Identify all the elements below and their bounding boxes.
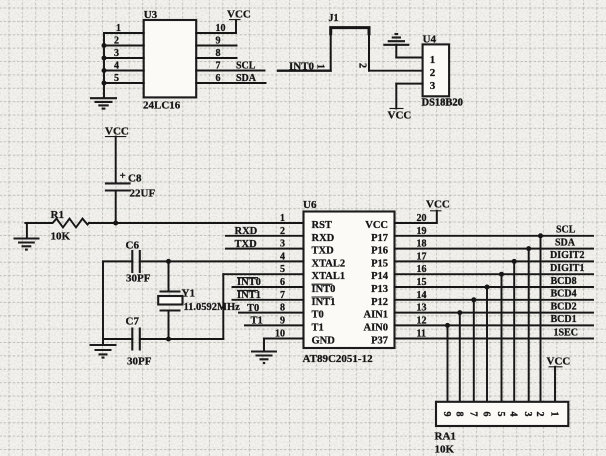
U6 pin 14 wire, net BCD4 (395, 289, 594, 300)
U6 left pin numbers 1-10 (275, 213, 285, 340)
svg-text:INT0: INT0 (312, 284, 336, 295)
resistor array RA1 10K (435, 402, 569, 456)
svg-text:T0: T0 (247, 303, 259, 314)
wire RXD to U6 pin 2 (226, 226, 304, 237)
svg-text:1: 1 (549, 412, 560, 417)
junction XTAL2 / Y1 (166, 259, 171, 264)
svg-text:6: 6 (481, 412, 492, 417)
svg-text:DIGIT2: DIGIT2 (550, 250, 584, 261)
crystal Y1 11.0592MHz (158, 261, 240, 339)
U6 pin 19 wire, net SCL (395, 225, 594, 236)
wire T1 to U6 pin 9 (245, 316, 304, 327)
svg-text:10K: 10K (435, 444, 455, 456)
svg-text:XTAL1: XTAL1 (312, 271, 346, 282)
wire: U3 input bus (103, 33, 105, 98)
svg-text:P15: P15 (371, 258, 388, 269)
svg-text:8: 8 (453, 412, 464, 417)
svg-text:2: 2 (430, 67, 436, 79)
svg-text:9: 9 (441, 412, 452, 417)
wire INT0 to J1 pin 1 (278, 69, 331, 71)
U4 DS18B20 body (422, 34, 463, 109)
svg-text:DIGIT1: DIGIT1 (550, 263, 584, 274)
ground under U3 bus (90, 98, 117, 108)
svg-text:RXD: RXD (235, 226, 258, 237)
svg-text:C6: C6 (126, 240, 140, 252)
U3 pin 8 wire (196, 48, 236, 59)
wire T0 to U6 pin 8 (239, 303, 304, 314)
svg-text:22UF: 22UF (130, 188, 156, 200)
svg-text:RA1: RA1 (435, 431, 456, 443)
svg-text:3: 3 (114, 48, 119, 59)
U3 pin 6 wire, net SDA (196, 73, 265, 84)
svg-text:AT89C2051-12: AT89C2051-12 (303, 353, 374, 365)
svg-text:P13: P13 (371, 284, 388, 295)
svg-text:RXD: RXD (312, 233, 335, 244)
svg-text:U4: U4 (423, 34, 437, 46)
VCC at U6 pin 20 (426, 199, 450, 224)
svg-text:24LC16: 24LC16 (143, 100, 181, 112)
svg-text:INT1: INT1 (237, 290, 261, 301)
junction DIGIT1 / RA1 pin 5 drop (499, 272, 504, 402)
VCC at U3 pin 10 (227, 9, 251, 34)
svg-text:T1: T1 (251, 316, 263, 327)
svg-text:8: 8 (216, 48, 221, 59)
svg-text:VCC: VCC (388, 110, 412, 122)
svg-text:11.0592MHz: 11.0592MHz (184, 302, 241, 313)
svg-text:U6: U6 (303, 199, 317, 211)
svg-text:+: + (120, 170, 126, 182)
jumper J1 (315, 13, 370, 71)
junction C8 / RST wire (113, 221, 118, 226)
svg-text:SCL: SCL (556, 225, 576, 236)
U6 pin 13 wire, net BCD2 (395, 301, 594, 312)
wire RST net to U6 pin 1 (89, 222, 304, 224)
svg-text:AIN1: AIN1 (363, 310, 388, 321)
svg-text:9: 9 (216, 36, 221, 47)
svg-text:DS18B20: DS18B20 (422, 98, 463, 109)
svg-text:SDA: SDA (555, 237, 576, 248)
capacitor C6 30PF (126, 240, 151, 285)
wire XTAL1 to U6 pin 5 (223, 273, 303, 275)
svg-text:VCC: VCC (426, 199, 450, 211)
junction on bus pin2 (102, 43, 107, 48)
svg-text:2: 2 (534, 412, 545, 417)
svg-text:Y1: Y1 (182, 288, 195, 300)
U6 pin 20 wire (395, 222, 437, 224)
wire TXD to U6 pin 3 (226, 239, 304, 250)
svg-text:4: 4 (114, 61, 119, 72)
svg-text:1: 1 (430, 54, 436, 66)
svg-text:TXD: TXD (235, 239, 258, 250)
junction on bus pin3 (102, 56, 107, 61)
svg-text:INT1: INT1 (312, 297, 336, 308)
bottom wire C7 left segment (103, 338, 132, 340)
wire XTAL2 to U6 pin 4 (140, 260, 304, 262)
U3 EEPROM body (143, 9, 196, 112)
U6 right internal pin names (363, 220, 388, 347)
VCC above C8 (105, 126, 129, 184)
U6 pin 12 wire, net BCD1 (395, 314, 594, 325)
U3 pin 9 wire (196, 36, 236, 47)
inverted ground above U4 pin 1 (383, 34, 409, 58)
svg-text:P12: P12 (371, 297, 388, 308)
net label INT0 (top) (289, 60, 315, 72)
RA1 pin numbers (441, 412, 560, 417)
junction on bus pin5 (102, 81, 107, 86)
svg-text:P14: P14 (371, 271, 389, 282)
svg-text:4: 4 (508, 412, 519, 417)
ground under crystal caps (90, 345, 117, 358)
svg-text:C7: C7 (126, 316, 140, 328)
svg-text:30PF: 30PF (127, 356, 152, 368)
svg-text:10: 10 (216, 23, 226, 34)
svg-text:U3: U3 (144, 9, 158, 21)
svg-text:BCD8: BCD8 (551, 276, 577, 287)
svg-text:5: 5 (114, 73, 119, 84)
svg-text:10K: 10K (51, 231, 71, 243)
bottom wire C7 right segment to XTAL1 drop (140, 338, 224, 340)
junction on bus pin4 (102, 68, 107, 73)
junction BCD2 / RA1 pin 8 drop (457, 310, 462, 401)
svg-text:2: 2 (357, 63, 368, 68)
U6 right pin numbers 20-11 (417, 213, 427, 340)
svg-text:J1: J1 (329, 13, 339, 24)
svg-text:7: 7 (467, 412, 478, 417)
junction Y1 / bottom wire (166, 337, 171, 342)
junction BCD1 / RA1 pin 9 drop (445, 323, 450, 402)
junction DIGIT2 / RA1 pin 4 drop (512, 259, 517, 402)
svg-text:BCD2: BCD2 (551, 301, 577, 312)
svg-text:VCC: VCC (105, 126, 129, 138)
junction SDA / RA1 pin 3 drop (526, 246, 531, 401)
wire J1 pin 2 to U4 pin 2 (369, 70, 423, 72)
U3 pin 4 wire (104, 61, 144, 72)
U3 pin 10 wire (196, 23, 236, 34)
svg-text:SDA: SDA (236, 73, 257, 84)
wire INT0 to U6 pin 6 (233, 277, 304, 288)
svg-text:2: 2 (114, 36, 119, 47)
VCC at RA1 pin 1 (547, 356, 571, 402)
U4 pin 3 wire (396, 83, 422, 85)
svg-text:VCC: VCC (227, 9, 251, 21)
U3 pin 3 wire (104, 48, 144, 59)
U4 pin 1 wire (396, 57, 422, 59)
svg-text:6: 6 (216, 73, 221, 84)
U3 pin 1 wire (104, 23, 144, 34)
svg-text:T0: T0 (312, 310, 324, 321)
svg-text:P16: P16 (371, 246, 388, 257)
wire left vertical C6/C7 to ground (102, 261, 104, 345)
U3 pin 2 wire (104, 36, 144, 47)
svg-text:1: 1 (315, 64, 326, 69)
junction BCD4 / RA1 pin 7 drop (471, 297, 476, 401)
U6 AT89C2051 body (303, 199, 395, 365)
svg-text:1: 1 (116, 23, 121, 34)
U3 pin 7 wire, net SCL (196, 61, 264, 72)
U6 left internal pin names (312, 220, 346, 347)
svg-text:7: 7 (216, 61, 221, 72)
svg-text:XTAL2: XTAL2 (312, 258, 346, 269)
U3 pin 5 wire (104, 73, 144, 84)
svg-text:BCD4: BCD4 (551, 289, 577, 300)
U6 pin 11 wire, net 1SEC (395, 327, 594, 338)
capacitor C8 22UF (105, 170, 156, 223)
svg-text:VCC: VCC (547, 356, 571, 368)
U6 pin 17 wire, net DIGIT2 (395, 250, 594, 261)
wire INT1 to U6 pin 7 (233, 290, 304, 301)
wire XTAL2 left segment to C6 (103, 260, 132, 262)
junction SCL / RA1 pin 2 drop (538, 233, 543, 401)
svg-text:T1: T1 (312, 322, 324, 333)
ground at R1 (14, 223, 40, 250)
svg-text:P37: P37 (371, 336, 388, 347)
U6 pin 16 wire, net DIGIT1 (395, 263, 594, 274)
U6 pin 18 wire, net SDA (395, 237, 594, 248)
wire U6 pin 10 GND (264, 338, 304, 340)
svg-text:VCC: VCC (365, 220, 388, 231)
svg-text:TXD: TXD (312, 246, 335, 257)
U6 pin 15 wire, net BCD8 (395, 276, 594, 287)
wire XTAL1 vertical drop (222, 274, 224, 339)
resistor R1 10K (25, 209, 89, 243)
svg-text:P17: P17 (371, 233, 388, 244)
ground at U6 pin 10 (251, 339, 277, 364)
svg-text:5: 5 (495, 412, 506, 417)
junction BCD8 / RA1 pin 6 drop (485, 285, 490, 402)
svg-text:BCD1: BCD1 (551, 314, 577, 325)
svg-text:SCL: SCL (236, 61, 256, 72)
svg-text:RST: RST (312, 220, 332, 231)
svg-text:1SEC: 1SEC (554, 327, 578, 338)
svg-text:3: 3 (430, 80, 436, 92)
svg-text:AIN0: AIN0 (363, 322, 388, 333)
svg-text:INT0: INT0 (237, 277, 261, 288)
svg-text:GND: GND (312, 336, 336, 347)
capacitor C7 30PF (126, 316, 152, 368)
svg-text:3: 3 (522, 412, 533, 417)
svg-text:1: 1 (280, 213, 285, 224)
VCC at U4 pin 3 (388, 84, 412, 122)
svg-text:30PF: 30PF (126, 273, 151, 285)
